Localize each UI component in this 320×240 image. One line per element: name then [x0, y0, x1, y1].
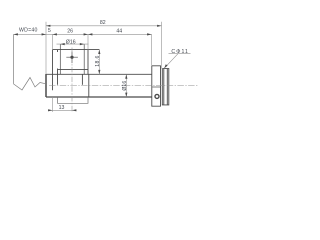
svg-text:18.6: 18.6 [95, 55, 101, 67]
svg-text:CΦ11: CΦ11 [171, 49, 189, 55]
svg-text:5: 5 [48, 28, 51, 34]
svg-text:Ø16: Ø16 [122, 81, 128, 91]
svg-text:Ø16: Ø16 [66, 39, 76, 45]
svg-text:82: 82 [100, 20, 106, 26]
svg-text:44: 44 [116, 29, 122, 35]
svg-text:WD=40: WD=40 [19, 28, 38, 34]
svg-text:26: 26 [67, 28, 73, 34]
svg-text:13: 13 [59, 105, 65, 111]
